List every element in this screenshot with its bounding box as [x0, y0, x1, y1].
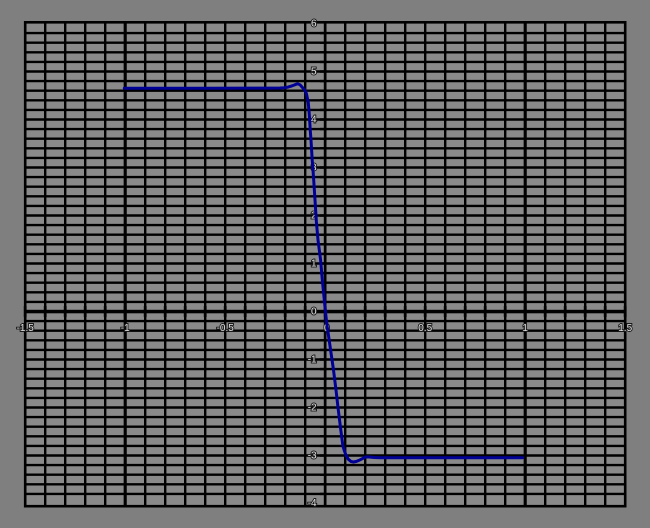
- svg-text:4: 4: [311, 115, 317, 126]
- svg-text:-0.5: -0.5: [217, 323, 235, 334]
- svg-text:-1: -1: [308, 355, 317, 366]
- svg-text:1: 1: [522, 323, 528, 334]
- y-axis: [324, 22, 327, 506]
- x-axis tick marks (every 0.1): [25, 306, 625, 317]
- y-axis tick marks (every 0.2): [320, 33, 327, 494]
- svg-text:-1.5: -1.5: [17, 323, 35, 334]
- svg-text:6: 6: [311, 19, 317, 30]
- svg-text:0.5: 0.5: [418, 323, 432, 334]
- minor vertical gridlines (0.1 spacing): [45, 22, 605, 506]
- svg-text:1: 1: [311, 259, 317, 270]
- svg-text:-4: -4: [308, 498, 317, 509]
- svg-text:-3: -3: [308, 451, 317, 462]
- function curve (blue): [124, 84, 522, 462]
- svg-text:5: 5: [311, 67, 317, 78]
- svg-text:1.5: 1.5: [618, 323, 632, 334]
- x-axis: [24, 310, 626, 314]
- major vertical gridlines at x=-1 and x=1: [125, 22, 525, 506]
- svg-text:0: 0: [311, 307, 317, 318]
- svg-text:-2: -2: [308, 403, 317, 414]
- svg-text:-1: -1: [121, 323, 130, 334]
